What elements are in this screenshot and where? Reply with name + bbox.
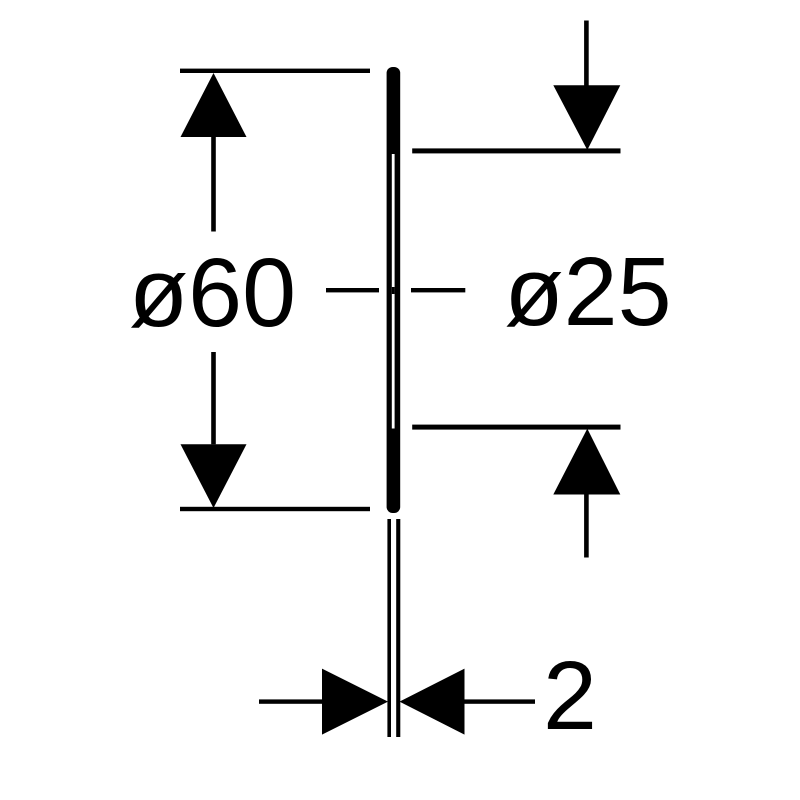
dimension ø25: bottom extension line: [412, 425, 620, 430]
centerline dash right: [411, 288, 465, 292]
svg-text:ø25: ø25: [504, 237, 671, 346]
dimension 2: left leader line: [259, 699, 322, 703]
dimension 2: right leader line: [465, 699, 536, 703]
dimension ø60: bottom arrowhead (down): [181, 444, 247, 508]
centerline dash left: [326, 288, 379, 292]
dimension ø60: top arrowhead (up): [181, 73, 247, 137]
dimension ø25: bottom arrowhead (up): [553, 429, 620, 495]
dimension ø25: top arrowhead (down): [553, 85, 620, 150]
svg-text:2: 2: [543, 641, 597, 750]
dimension ø60: bottom extension line: [180, 507, 370, 511]
dimension 2: right arrowhead (left-pointing): [400, 669, 465, 735]
dimension ø60: top stem: [211, 137, 216, 232]
part: inner bore slit (white): [392, 154, 395, 429]
face extension line left (below part): [387, 519, 391, 737]
dimension ø25: top stem: [584, 21, 589, 86]
svg-text:ø60: ø60: [129, 238, 296, 347]
dimension ø60: top extension line: [180, 69, 370, 73]
dimension ø60: bottom stem: [211, 352, 216, 444]
dimension ø25: bottom stem: [584, 495, 589, 558]
dimension 2: left arrowhead (right-pointing): [322, 669, 388, 735]
centerline tick across bore: [392, 287, 395, 294]
part: disc seen edge-on (solid section bar): [387, 67, 401, 513]
face extension line right (below part): [396, 519, 400, 737]
dimension ø25: top extension line: [412, 148, 620, 153]
